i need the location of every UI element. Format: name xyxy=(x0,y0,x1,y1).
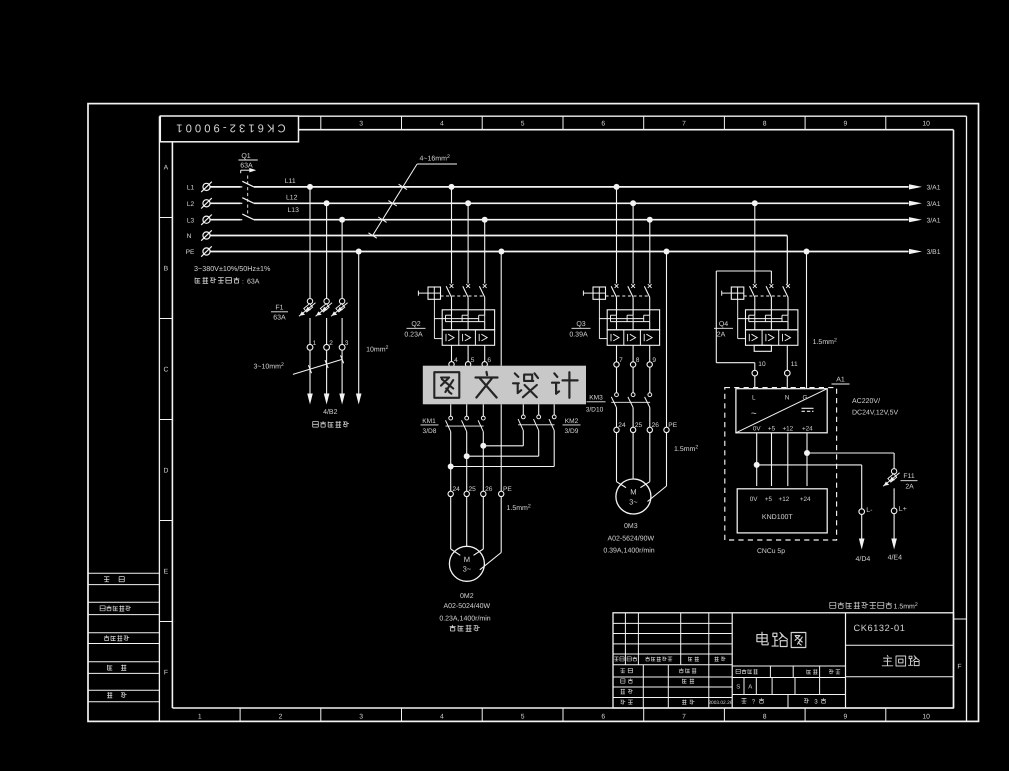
svg-text:+12: +12 xyxy=(779,496,790,503)
svg-text:L11: L11 xyxy=(285,178,296,185)
wire F1 pole 3 to terminal 3 xyxy=(341,318,343,344)
svg-text:8: 8 xyxy=(636,357,640,364)
svg-text:L13: L13 xyxy=(288,207,300,214)
svg-text:6: 6 xyxy=(487,357,491,364)
svg-text:A02-5624/90W: A02-5624/90W xyxy=(607,534,654,542)
breaker Q4 pole 3 blade xyxy=(786,284,790,288)
svg-text:3: 3 xyxy=(359,121,363,128)
svg-text:3~10mm2: 3~10mm2 xyxy=(254,362,284,371)
motor M2 feeder wires xyxy=(616,433,618,482)
svg-text:F: F xyxy=(164,669,168,676)
terminal circle-slash at line start xyxy=(203,232,210,239)
svg-text:7: 7 xyxy=(682,714,686,721)
svg-text:S: S xyxy=(736,684,740,691)
svg-text:Q2: Q2 xyxy=(411,321,420,328)
terminal 4 circle xyxy=(449,362,454,367)
svg-text:8: 8 xyxy=(763,714,767,721)
breaker Q3 thermal overload block xyxy=(607,310,659,330)
svg-text:F: F xyxy=(957,664,961,671)
svg-text:+24: +24 xyxy=(800,496,811,503)
svg-text:0V: 0V xyxy=(750,496,759,503)
svg-text:1.5mm2: 1.5mm2 xyxy=(674,444,698,453)
svg-text:KM1: KM1 xyxy=(422,418,436,425)
svg-text:?: ? xyxy=(752,699,756,706)
wire PE drop for motor M2 xyxy=(664,249,670,255)
switch Q1 pole 2 blade xyxy=(241,202,243,204)
breaker Q4 magnetic trip row xyxy=(746,330,798,346)
arrow 3/A1 for L1 xyxy=(909,184,922,189)
wire Q2 pole 1 to terminal 4 xyxy=(451,345,453,361)
svg-text:A02-5024/40W: A02-5024/40W xyxy=(443,602,490,610)
svg-text:1.5mm2: 1.5mm2 xyxy=(507,504,531,513)
contactor KM3 poles xyxy=(616,367,618,393)
svg-text:CK6132-90001: CK6132-90001 xyxy=(173,122,285,134)
wire N bus with elbow down to Q4 xyxy=(210,235,787,237)
svg-text:7: 7 xyxy=(619,357,623,364)
wire F1 pole 1 to terminal 1 xyxy=(309,318,311,344)
terminal circle-slash at line start xyxy=(203,183,210,190)
breaker Q4 operator box xyxy=(731,287,744,299)
svg-text:6: 6 xyxy=(601,121,605,128)
title block header labels 标记 处数 更改文件号 签字 日期 xyxy=(614,657,624,661)
terminal 7 circle xyxy=(614,362,619,367)
svg-text:63A: 63A xyxy=(240,163,253,170)
svg-text:A: A xyxy=(164,164,169,171)
svg-text:DC24V,12V,5V: DC24V,12V,5V xyxy=(852,410,899,417)
sheet name cell 主回路 xyxy=(846,676,954,678)
svg-text:26: 26 xyxy=(652,422,660,429)
breaker Q2 pole 1 blade xyxy=(450,284,454,288)
svg-text:4~16mm2: 4~16mm2 xyxy=(420,154,450,163)
wire F11 to L+ terminal xyxy=(893,488,895,508)
breaker Q3 linkage dashed xyxy=(606,295,648,297)
wire drop L2 to Q4 pole1 xyxy=(754,203,756,283)
svg-text:+12: +12 xyxy=(782,426,793,433)
junction dot +24 branch xyxy=(804,450,810,456)
wire drop L3 to Q3 pole3 xyxy=(649,220,651,284)
wire +24 branch to fuse F11 xyxy=(807,452,894,454)
svg-text:Q4: Q4 xyxy=(719,321,728,328)
contactor KM2 poles xyxy=(522,404,524,415)
svg-text:10: 10 xyxy=(922,121,930,128)
breaker Q3 magnetic trip row xyxy=(607,330,659,346)
svg-text:3/D9: 3/D9 xyxy=(565,428,579,435)
svg-text:5: 5 xyxy=(471,357,475,364)
svg-text:L3: L3 xyxy=(187,217,195,224)
module A1 dashed enclosure xyxy=(725,388,837,540)
svg-text:9: 9 xyxy=(844,714,848,721)
wire drop L1 to F1 pole1 xyxy=(309,187,311,298)
arrow PE to 4/B2 xyxy=(356,394,362,405)
svg-text:A: A xyxy=(748,684,752,691)
wire drop L1 to Q3 pole1 xyxy=(616,187,618,284)
svg-text:63A: 63A xyxy=(247,278,260,285)
svg-text:D: D xyxy=(163,467,168,474)
wire Q3 pole 2 to terminal 8 xyxy=(632,345,634,362)
controller KND100T box xyxy=(737,489,827,533)
terminal circle-slash at line start xyxy=(203,200,210,207)
wire drop L2 to Q3 pole2 xyxy=(632,203,634,283)
svg-text:9: 9 xyxy=(652,357,656,364)
cable marker 3~10mm2 leader xyxy=(293,360,342,375)
svg-text:5: 5 xyxy=(521,121,525,128)
terminal circle-slash at line start xyxy=(203,216,210,223)
contactor KM1 poles xyxy=(450,404,452,416)
junction dot 0V branch xyxy=(754,462,760,468)
svg-text:4/B2: 4/B2 xyxy=(323,408,338,416)
left margin label 签字 xyxy=(108,665,127,671)
wire drop L2 to Q2 pole2 xyxy=(467,203,469,283)
terminal PE circle (motor M2 row) xyxy=(664,427,669,432)
breaker Q4 linkage dashed xyxy=(744,295,786,297)
svg-text:N: N xyxy=(187,233,192,240)
svg-text:8: 8 xyxy=(763,121,767,128)
fuse F1 pole 1 xyxy=(307,299,312,304)
breaker Q3 operator box xyxy=(593,287,606,299)
fuse F1 pole 2 xyxy=(324,299,329,304)
title block row labels 校对/审定 xyxy=(621,679,633,684)
switch Q1 linkage dashed xyxy=(247,176,249,218)
svg-text:3/D10: 3/D10 xyxy=(586,406,604,413)
wire terminal 2 down to spindle-driver arrow xyxy=(326,350,328,393)
wire L- to 4/D4 arrow xyxy=(861,514,863,538)
wire F1 pole 2 to terminal 2 xyxy=(326,318,328,344)
terminal 25 circle (motor M2 row) xyxy=(630,427,635,432)
svg-text:Q1: Q1 xyxy=(241,153,250,160)
breaker Q4 pole 1 blade xyxy=(753,284,757,288)
wire terminal 1 down to spindle-driver arrow xyxy=(309,350,311,393)
switch Q1 pole 1 blade xyxy=(241,186,243,188)
switch Q1 pole 3 blade xyxy=(241,219,243,221)
wire PE bus xyxy=(210,251,908,253)
svg-text:3~380V±10%/50Hz±1%: 3~380V±10%/50Hz±1% xyxy=(194,264,271,273)
svg-text:KM3: KM3 xyxy=(589,395,603,402)
breaker Q3 pole 2 blade xyxy=(631,284,635,288)
svg-text:6: 6 xyxy=(601,714,605,721)
svg-text:2A: 2A xyxy=(905,484,914,491)
svg-text:4: 4 xyxy=(440,714,444,721)
title block stage cells S A xyxy=(732,694,845,696)
wire +12 output to KND xyxy=(787,433,789,486)
terminal 11 circle xyxy=(785,370,791,376)
fuse F11 xyxy=(891,469,896,474)
title block middle row 图样标记 重量 比例 xyxy=(732,677,845,679)
svg-text:0.23A: 0.23A xyxy=(404,332,423,339)
svg-text:2: 2 xyxy=(329,340,333,347)
title block row label 审核 xyxy=(621,689,633,694)
breaker Q2 linkage dashed xyxy=(441,295,483,297)
destination label 主轴驱动器 (spindle driver) xyxy=(313,421,349,427)
svg-text:4: 4 xyxy=(454,357,458,364)
wire KM3 pole 1 to terminal 24 (motor M2 row) xyxy=(616,408,618,428)
wire Q4 to terminal 10 xyxy=(754,363,756,371)
svg-text:+5: +5 xyxy=(768,426,776,433)
terminal 24 circle (motor M1 row) xyxy=(448,491,453,496)
breaker Q3 pole 3 blade xyxy=(648,284,652,288)
svg-text:2003.02.26: 2003.02.26 xyxy=(708,700,732,706)
wire PE into motor M2 xyxy=(666,433,668,486)
terminal circle-slash at line start xyxy=(203,248,210,255)
wire KM2 pole3 cross to KM1 pole1 xyxy=(553,430,555,466)
drawing number cell CK6132-01 xyxy=(845,613,847,708)
wire L+ to 4/E4 arrow xyxy=(893,514,895,539)
cable marker 4~16mm2 leader xyxy=(372,164,417,236)
terminal 26 circle (motor M1 row) xyxy=(481,491,486,496)
svg-text:3~: 3~ xyxy=(629,497,638,506)
wire +5 output to KND xyxy=(771,433,773,486)
svg-text:0.39A: 0.39A xyxy=(569,332,588,339)
svg-text:PE: PE xyxy=(186,249,195,256)
wire KM2 pole1 cross to KM1 pole3 xyxy=(522,430,524,445)
power supply U1 DC symbol xyxy=(802,407,814,409)
svg-text:1.5mm2: 1.5mm2 xyxy=(813,338,837,347)
drawing title cell 电路图 xyxy=(732,665,845,667)
wire PE drop to spindle driver xyxy=(358,252,360,394)
svg-text:0M3: 0M3 xyxy=(624,523,638,530)
breaker Q2 operator box xyxy=(428,287,441,299)
motor M1 label 刀架电机 (tool post motor) xyxy=(450,625,480,631)
svg-text:3/A1: 3/A1 xyxy=(927,217,941,224)
svg-text:B: B xyxy=(164,265,169,272)
svg-text:3/B1: 3/B1 xyxy=(927,249,941,256)
svg-text:CNCu 5p: CNCu 5p xyxy=(757,548,785,555)
arrow 3/A1 for L3 xyxy=(909,217,922,222)
svg-text:N: N xyxy=(785,395,790,402)
switch Q1 manual handle symbol xyxy=(241,169,251,171)
wire KM1 pole 2 down to terminal 25 xyxy=(466,432,468,492)
breaker Q3 trip linkage connector xyxy=(598,299,600,338)
watermark plate 图文设计 xyxy=(423,366,586,405)
left margin label 描图 xyxy=(104,577,124,582)
svg-text:63A: 63A xyxy=(273,315,286,322)
svg-text:25: 25 xyxy=(635,422,643,429)
junction dot reversing node c xyxy=(448,464,454,470)
svg-text:11: 11 xyxy=(791,361,798,368)
breaker Q2 trip linkage connector xyxy=(433,299,435,338)
terminal 6 circle xyxy=(482,362,487,367)
wire Q4 pole3 to terminal 11 xyxy=(786,345,788,370)
svg-text:KM2: KM2 xyxy=(565,418,579,425)
terminal 26 circle (motor M2 row) xyxy=(647,427,652,432)
svg-text:7: 7 xyxy=(682,121,686,128)
wire 0V output to KND xyxy=(756,433,758,486)
terminal 8 circle xyxy=(630,362,635,367)
svg-text:4/E4: 4/E4 xyxy=(888,554,903,562)
svg-text:M: M xyxy=(464,555,470,564)
terminal 3 circle xyxy=(339,344,345,350)
svg-text:M: M xyxy=(630,488,636,497)
svg-text:5: 5 xyxy=(521,714,525,721)
svg-text:3~: 3~ xyxy=(463,565,472,574)
breaker Q4 bottom stub box xyxy=(754,345,771,351)
left margin label 底图总号 xyxy=(104,635,129,641)
svg-text:10mm2: 10mm2 xyxy=(366,345,388,354)
svg-text:10: 10 xyxy=(758,361,766,368)
svg-text:24: 24 xyxy=(453,486,461,493)
wire 0V branch to L- terminal xyxy=(757,464,862,466)
wire Q4 terminal 11 to PSU N xyxy=(786,376,788,389)
svg-text:C: C xyxy=(163,366,168,373)
terminal 24 circle (motor M2 row) xyxy=(614,427,619,432)
left margin label 日期 xyxy=(107,692,127,698)
breaker Q4 trip linkage connector xyxy=(737,299,739,338)
svg-text:+24: +24 xyxy=(802,426,813,433)
breaker Q3 pole 1 blade xyxy=(615,284,619,288)
title block cells 共?页 第3页 xyxy=(787,695,789,709)
svg-text:3: 3 xyxy=(345,340,349,347)
svg-text:L: L xyxy=(752,395,756,402)
svg-text:F1: F1 xyxy=(275,305,283,312)
svg-text:26: 26 xyxy=(485,486,493,493)
wire drop L3 to Q2 pole3 xyxy=(484,220,486,284)
wire Q4 series bypass loop xyxy=(715,271,717,363)
motor M1 (tool post motor) xyxy=(449,546,484,581)
wire KM1 pole 3 down to terminal 26 xyxy=(482,432,484,492)
junction dots for Q3 feed xyxy=(614,184,620,190)
left margin label 旧底图总号 xyxy=(100,606,131,612)
terminal 1 circle xyxy=(307,344,313,350)
arrow 3/A1 for L2 xyxy=(909,201,922,206)
svg-text:PE: PE xyxy=(503,486,512,493)
breaker Q2 pole 2 blade xyxy=(466,284,470,288)
svg-text:E: E xyxy=(164,568,169,575)
terminal 25 circle (motor M1 row) xyxy=(464,491,469,496)
wire Q2 pole 3 to terminal 6 xyxy=(484,345,486,361)
motor M2 (coolant motor) xyxy=(616,479,651,514)
svg-text:1: 1 xyxy=(313,340,317,347)
arrow 3/B1 for PE xyxy=(909,249,922,254)
svg-text:24: 24 xyxy=(618,422,626,429)
svg-text:L12: L12 xyxy=(286,195,298,202)
svg-text:L2: L2 xyxy=(187,201,195,208)
title block row labels 设计/标准化 xyxy=(620,668,632,672)
wire KM3 pole 2 to terminal 25 (motor M2 row) xyxy=(632,408,634,428)
svg-text:0.23A,1400r/min: 0.23A,1400r/min xyxy=(439,614,490,622)
svg-text:L-: L- xyxy=(866,507,873,514)
junction dot reversing node b xyxy=(464,453,470,459)
terminal 5 circle xyxy=(465,362,470,367)
arrow to 4/B2 xyxy=(324,394,330,405)
wire drop L3 to F1 pole3 xyxy=(341,220,343,299)
wire L3 bus xyxy=(210,219,241,221)
svg-text:L1: L1 xyxy=(187,185,195,192)
note 熔断器容量：建议63A (fuse capacity: recommend 63A) xyxy=(195,277,239,283)
svg-text:0V: 0V xyxy=(753,426,762,433)
power supply U1 box xyxy=(736,389,827,433)
wire PE down to PSU G input xyxy=(806,252,808,389)
svg-text:KND100T: KND100T xyxy=(762,514,793,521)
junction dots on buses for F1 drops xyxy=(307,184,313,190)
wire drop L1 to Q2 pole1 xyxy=(451,187,453,284)
breaker Q2 pole 3 blade xyxy=(483,284,487,288)
svg-text:3/D8: 3/D8 xyxy=(423,428,437,435)
wire KM1 pole 1 down to terminal 24 xyxy=(450,432,452,492)
svg-text:~: ~ xyxy=(751,409,757,420)
svg-text:9: 9 xyxy=(844,121,848,128)
svg-text:3: 3 xyxy=(814,699,818,706)
svg-text:AC220V/: AC220V/ xyxy=(852,397,880,405)
breaker Q2 magnetic trip row xyxy=(442,330,494,346)
svg-text:F11: F11 xyxy=(903,473,914,480)
terminal L+ circle xyxy=(891,508,897,514)
svg-text:+5: +5 xyxy=(765,496,773,503)
terminal L- circle xyxy=(859,509,865,515)
terminal 10 circle xyxy=(752,370,758,376)
arrow to 4/B2 xyxy=(307,394,313,405)
title block row labels 工艺/日期/2003.02.26 xyxy=(620,700,632,704)
terminal PE circle (motor M1 row) xyxy=(499,491,504,496)
wire Q4 terminal 10 to PSU L xyxy=(754,376,756,389)
svg-text:4/D4: 4/D4 xyxy=(856,555,871,563)
wire PE into motor M1 xyxy=(500,497,502,553)
svg-text:4: 4 xyxy=(440,121,444,128)
wire PE drop for motor M1 xyxy=(500,252,502,366)
svg-text:10: 10 xyxy=(922,714,930,721)
wire drop L2 to F1 pole2 xyxy=(326,203,328,298)
wire +24 output to KND xyxy=(806,433,808,486)
svg-text:Q3: Q3 xyxy=(576,321,585,328)
svg-text:L+: L+ xyxy=(899,506,907,513)
arrow to 4/B2 xyxy=(339,394,345,405)
junction dot reversing node a xyxy=(480,443,486,449)
svg-text:0.39A,1400r/min: 0.39A,1400r/min xyxy=(603,547,654,555)
wire KM3 pole 3 to terminal 26 (motor M2 row) xyxy=(649,408,651,428)
breaker Q4 thermal overload block xyxy=(746,310,798,330)
svg-text:25: 25 xyxy=(469,486,477,493)
svg-text::: : xyxy=(242,278,244,285)
wire L1 bus xyxy=(210,186,241,188)
terminal 9 circle xyxy=(647,362,652,367)
wire Q3 pole 3 to terminal 9 xyxy=(649,345,651,362)
wire Q2 pole 2 to terminal 5 xyxy=(467,345,469,361)
wire L2 bus xyxy=(210,202,241,204)
svg-text:3: 3 xyxy=(359,714,363,721)
wire terminal 3 down to spindle-driver arrow xyxy=(341,350,343,393)
breaker Q4 pole 2 blade xyxy=(770,284,774,288)
svg-text:A1: A1 xyxy=(836,376,845,383)
svg-text:G: G xyxy=(803,395,808,402)
svg-text:2: 2 xyxy=(279,714,283,721)
svg-text:1.5mm2: 1.5mm2 xyxy=(894,602,918,611)
breaker Q2 thermal overload block xyxy=(442,310,494,330)
svg-text:PE: PE xyxy=(668,422,677,429)
terminal 2 circle xyxy=(324,344,330,350)
svg-text:3/A1: 3/A1 xyxy=(927,201,941,208)
wire KM2 pole2 cross to KM1 pole2 xyxy=(538,430,540,456)
svg-text:0M2: 0M2 xyxy=(460,593,474,600)
svg-text:CK6132-01: CK6132-01 xyxy=(854,623,906,633)
svg-text:2A: 2A xyxy=(717,332,726,339)
junction dots for Q2 feed xyxy=(449,184,455,190)
motor M1 feeder wires xyxy=(450,497,452,549)
fuse F1 pole 3 xyxy=(339,299,344,304)
wire Q3 pole 1 to terminal 7 xyxy=(616,345,618,362)
svg-text:1: 1 xyxy=(198,714,202,721)
junction dot L2 feed to Q4 xyxy=(752,200,758,206)
svg-text:3/A1: 3/A1 xyxy=(927,185,941,192)
junction dot PE feed to PSU ground xyxy=(804,249,810,255)
note 未注明导线线径为1.5mm2 xyxy=(830,602,892,609)
